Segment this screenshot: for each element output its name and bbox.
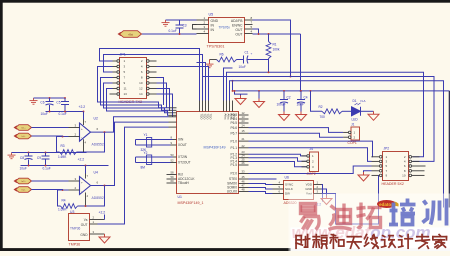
wire MSP to AD5320 b: [249, 188, 273, 190]
svg-text:SCLK: SCLK: [285, 187, 293, 191]
svg-text:21: 21: [242, 137, 246, 141]
svg-text:R4: R4: [62, 198, 66, 202]
svg-text:52: 52: [171, 159, 175, 163]
wire rail top: [34, 97, 66, 99]
header COP1: [351, 127, 360, 140]
wire riser U4 power: [85, 166, 87, 174]
wire OUT down to rail: [300, 34, 302, 91]
svg-text:+: +: [251, 52, 253, 56]
wire drop to ground left: [258, 91, 260, 99]
svg-text:MSP430F149_1: MSP430F149_1: [178, 201, 204, 205]
svg-text:+Bat: +Bat: [128, 34, 133, 37]
wire TMP36 OUT to MSP: [98, 127, 169, 224]
border left: [0, 0, 3, 253]
wire R2 to D1: [342, 110, 352, 112]
svg-text:TDO: TDO: [209, 114, 213, 121]
capacitor C2: [280, 91, 288, 112]
svg-text:P6.6: P6.6: [230, 126, 237, 130]
wire R1 top: [268, 34, 270, 42]
svg-text:26: 26: [242, 161, 246, 165]
wire bus JP1 to MSP430 c: [104, 83, 169, 113]
wire loop JP1 pin3 over top: [104, 55, 203, 101]
watermark char di: [329, 204, 352, 230]
wire MSP to COP2 c: [249, 162, 307, 167]
svg-text:15: 15: [242, 129, 246, 133]
crystal Y1: [136, 138, 173, 148]
svg-text:TBoutH: TBoutH: [178, 181, 190, 185]
watermark char tuo: [357, 203, 382, 228]
op-amp U4: [69, 174, 99, 199]
wire P2 right 8: [420, 170, 425, 172]
wire MSP to COP1 b: [249, 133, 344, 137]
svg-text:OUT: OUT: [81, 223, 88, 227]
svg-text:0.1uF: 0.1uF: [59, 112, 67, 116]
ground rail bottom-left: [8, 153, 16, 159]
svg-text:P1.0: P1.0: [230, 139, 237, 143]
svg-text:J4: J4: [310, 147, 314, 151]
wire JP1 right down a: [157, 78, 164, 106]
svg-text:VDD: VDD: [306, 183, 313, 187]
svg-text:1.69K: 1.69K: [58, 208, 67, 212]
svg-text:XOUT: XOUT: [178, 143, 187, 147]
wire MSP to P2 pin1: [249, 141, 373, 157]
svg-text:EN/NC: EN/NC: [232, 24, 243, 28]
wire rail +2.2 mid: [21, 165, 109, 167]
watermark char pei: [389, 199, 416, 225]
svg-text:C9: C9: [37, 156, 41, 160]
svg-text:XIN: XIN: [178, 138, 184, 142]
temperature sensor U3 TMP36: [69, 214, 90, 241]
wire rail +2.2 top: [46, 111, 84, 113]
watermark background: [289, 194, 450, 252]
ground arrow MSP top: [235, 96, 246, 105]
svg-text:C8: C8: [20, 156, 24, 160]
svg-text:60: 60: [171, 179, 175, 183]
svg-text:23: 23: [242, 119, 246, 123]
wire run U5 OUT to rail: [253, 29, 259, 34]
wire JP1 right down b: [157, 83, 167, 108]
ground arrow AD5320: [321, 196, 332, 205]
header JP1: [120, 58, 147, 99]
wire bus JP1 to MSP430 a: [98, 67, 169, 108]
capacitor C8: [25, 153, 33, 166]
wire connector to U4 inv: [32, 189, 63, 192]
svg-text:GND: GND: [211, 19, 219, 23]
svg-text:TPS76x: TPS76x: [219, 26, 231, 30]
wire JP1 right down d: [157, 94, 173, 117]
connector Inp1+: [14, 125, 32, 131]
svg-text:LED: LED: [352, 118, 359, 122]
svg-text:0.1uF: 0.1uF: [169, 29, 177, 33]
svg-text:10: 10: [402, 174, 406, 178]
svg-text:COP2: COP2: [307, 172, 316, 176]
svg-text:8M: 8M: [141, 166, 146, 170]
wire mini gnd rail: [235, 91, 248, 94]
svg-text:OUT: OUT: [235, 28, 242, 32]
wire connector to U5 pin4: [142, 33, 197, 35]
svg-text:R6: R6: [220, 53, 224, 57]
wire MSP top right bundle a: [224, 68, 233, 101]
connector +B: [118, 31, 142, 38]
svg-text:UCLK0: UCLK0: [227, 190, 238, 194]
svg-text:+: +: [81, 180, 83, 184]
wire TMP36 GND: [98, 233, 105, 235]
svg-text:R2: R2: [319, 105, 323, 109]
svg-text:C1: C1: [245, 51, 249, 55]
svg-text:100uF: 100uF: [277, 103, 286, 107]
wire JP1 pin4 to MSP top: [157, 67, 209, 101]
ground near U5: [162, 20, 170, 26]
svg-text:Rst: Rst: [178, 173, 183, 177]
wire P2 right 6: [420, 165, 426, 167]
wire bus JP1 to MSP430 b: [101, 78, 169, 111]
svg-text:U5: U5: [209, 13, 214, 17]
wire U5 GND to ground: [166, 19, 197, 21]
ground above MSP430: [206, 62, 214, 68]
capacitor C4: [297, 91, 305, 112]
wire U5 IN join: [193, 25, 197, 30]
wire MSP top left vertical: [197, 63, 206, 101]
svg-text:U6: U6: [285, 176, 289, 180]
ground arrow under C2: [279, 112, 290, 121]
svg-text:OUT: OUT: [235, 33, 242, 37]
svg-text:In1+: In1+: [21, 128, 26, 130]
svg-text:10uF: 10uF: [239, 65, 246, 69]
svg-text:IN: IN: [211, 28, 215, 32]
svg-text:1.69K: 1.69K: [58, 155, 67, 159]
svg-text:700: 700: [320, 115, 326, 119]
svg-text:HEADER 5X2: HEADER 5X2: [382, 182, 404, 186]
wire U2 feedback: [77, 132, 105, 152]
wire riser U2 power: [83, 112, 85, 120]
capacitor C3: [176, 20, 184, 34]
svg-text:GND: GND: [305, 187, 313, 191]
svg-text:0.1uF: 0.1uF: [43, 167, 51, 171]
resistor R4: [61, 204, 78, 209]
wire U2 vminus: [83, 145, 85, 153]
resistor R1: [266, 42, 271, 59]
wire D1 to ground: [361, 110, 374, 112]
connector Inp1-: [14, 133, 32, 139]
svg-text:XT2IN: XT2IN: [178, 155, 188, 159]
DAC U6 AD5320: [284, 181, 314, 200]
svg-text:R1: R1: [273, 43, 277, 47]
svg-text:D1: D1: [353, 99, 357, 103]
capacitor C6: [46, 98, 54, 112]
svg-text:In2-: In2-: [22, 190, 26, 192]
svg-text:TMP36: TMP36: [70, 227, 81, 231]
wire TMP36 Vs to +2.2: [104, 215, 106, 220]
wire U5 ADJ down: [253, 20, 291, 77]
svg-text:Vs: Vs: [84, 218, 88, 222]
svg-text:C5: C5: [56, 101, 60, 105]
svg-text:+2.2: +2.2: [78, 158, 85, 162]
svg-text:10uF: 10uF: [297, 103, 304, 107]
svg-text:13: 13: [124, 92, 128, 96]
wire MSP right g: [249, 178, 277, 180]
resistor R3: [60, 150, 77, 155]
ground arrow after LED: [368, 111, 379, 120]
microcontroller U1 MSP430F149: [177, 112, 239, 194]
wire rail to R2: [311, 91, 323, 111]
svg-text:U4: U4: [94, 171, 98, 175]
ground arrow TMP36: [99, 234, 110, 243]
svg-text:-: -: [81, 136, 82, 140]
wire loop JP1 pin1 over top: [100, 49, 200, 101]
wire AD5320 Vout: [322, 175, 379, 224]
svg-text:ADJ/FB: ADJ/FB: [231, 19, 243, 23]
svg-text:Y1: Y1: [144, 133, 148, 137]
svg-text:+2.2: +2.2: [79, 105, 86, 109]
wire rail y90: [232, 81, 234, 91]
svg-text:TPS76301: TPS76301: [207, 45, 225, 49]
svg-text:45: 45: [242, 175, 246, 179]
wire MSP to P2 pin5: [249, 166, 372, 174]
svg-text:10uF: 10uF: [41, 112, 48, 116]
svg-text:P6.7: P6.7: [230, 131, 237, 135]
voltage regulator U5 TPS76301: [209, 18, 245, 43]
svg-text:In1-: In1-: [22, 136, 26, 138]
crystal Y2: [136, 155, 173, 165]
svg-text:AD8552: AD8552: [92, 143, 104, 147]
wire MSP to COP2 b: [249, 158, 307, 162]
svg-text:N.A: N.A: [361, 99, 366, 103]
wire MSP to P2 pin3: [249, 148, 372, 162]
ground arrow P2: [358, 172, 369, 181]
svg-text:24: 24: [242, 124, 246, 128]
svg-text:100k: 100k: [273, 48, 280, 52]
svg-text:In2+: In2+: [21, 181, 26, 183]
wire R4 to inverting input: [58, 190, 69, 206]
wire run3 y80 down right: [230, 81, 444, 208]
wire AD5320 GND: [322, 189, 327, 196]
svg-text:XT2OUT: XT2OUT: [178, 161, 191, 165]
svg-text:12: 12: [139, 87, 143, 91]
wire U4 feedback: [78, 186, 105, 207]
svg-text:P1.5: P1.5: [230, 163, 237, 167]
border top: [0, 0, 450, 3]
wire R1 bottom: [268, 59, 270, 73]
wire bus JP1 to MSP430 d: [107, 89, 169, 116]
wire P2 right 10: [420, 174, 425, 176]
wire P2 pin7 ground: [364, 171, 372, 172]
watermark slogan: [296, 235, 310, 249]
header P2 5x2: [383, 152, 409, 181]
svg-text:+2.2: +2.2: [99, 211, 106, 215]
svg-text:10uF: 10uF: [20, 167, 27, 171]
svg-text:22: 22: [242, 144, 246, 148]
capacitor C5: [61, 98, 69, 112]
svg-text:14: 14: [139, 92, 143, 96]
svg-text:P2.0: P2.0: [230, 172, 237, 176]
wire MSP to AD5320 c: [249, 192, 273, 194]
svg-text:11: 11: [124, 87, 127, 91]
svg-text:U1: U1: [178, 195, 182, 199]
watermark char yi: [301, 204, 320, 230]
wire connector to U4 noninv: [32, 180, 69, 182]
wire MSP to COP2 a: [249, 154, 307, 156]
svg-text:STE0: STE0: [229, 177, 237, 181]
svg-text:C6: C6: [40, 101, 44, 105]
wire U4 vminus: [85, 198, 87, 206]
svg-text:U3: U3: [70, 210, 74, 214]
svg-text:MSP430F149: MSP430F149: [204, 146, 226, 150]
ground arrow left of C2: [254, 99, 265, 108]
connector Inp2+: [14, 178, 32, 184]
svg-text:C2: C2: [287, 96, 291, 100]
svg-text:C3: C3: [183, 24, 187, 28]
watermark logo: [377, 200, 399, 208]
svg-text:Y2: Y2: [144, 151, 148, 155]
header COP2: [310, 152, 319, 172]
svg-text:TMP36: TMP36: [69, 243, 81, 247]
svg-text:JP2: JP2: [384, 147, 390, 151]
svg-text:10: 10: [139, 81, 143, 85]
svg-text:-: -: [81, 189, 82, 193]
capacitor C1: [237, 52, 269, 64]
wire U2 output: [91, 117, 169, 132]
svg-text:SYNC: SYNC: [285, 183, 294, 187]
svg-text:58: 58: [171, 171, 175, 175]
resistor R6: [217, 57, 237, 62]
wire connector to U2 noninv: [32, 127, 69, 129]
svg-text:J1: J1: [351, 123, 355, 127]
wire run1 y72 to P2: [227, 72, 424, 157]
wire U4 output: [91, 122, 169, 185]
wire JP1 right down c: [157, 89, 170, 112]
wire rail bottom: [12, 152, 87, 154]
svg-text:IN: IN: [211, 24, 215, 28]
svg-text:P1.1: P1.1: [230, 146, 237, 150]
ground rail top-left: [30, 98, 38, 104]
diode D1 LED: [352, 103, 361, 116]
wire MSP to AD5320 a: [249, 184, 273, 185]
svg-text:33: 33: [242, 170, 246, 174]
wire AD5320 VDD: [322, 185, 323, 202]
svg-text:COP1: COP1: [348, 141, 357, 145]
wire MSP to COP1 a: [249, 128, 344, 133]
svg-text:R3: R3: [61, 144, 65, 148]
connector Inp2-: [14, 187, 32, 193]
svg-text:AD8552: AD8552: [92, 196, 104, 200]
svg-text:P6.5: P6.5: [230, 121, 237, 125]
wire U5 OUT pin4 east: [253, 33, 301, 35]
watermark char xun: [423, 199, 447, 226]
ground arrow under C4: [296, 112, 307, 121]
svg-text:C4: C4: [304, 96, 308, 100]
wire gnd to R6: [210, 59, 217, 61]
svg-text:U2: U2: [94, 117, 98, 121]
wire R3 to inverting input: [57, 137, 69, 153]
wire run2 y76 to P2: [203, 77, 435, 162]
wire connector to U2 inv: [32, 135, 63, 138]
svg-text:48: 48: [242, 188, 246, 192]
svg-text:+: +: [81, 127, 83, 131]
op-amp U2: [69, 120, 99, 145]
svg-text:GND: GND: [80, 233, 88, 237]
resistor R2: [322, 109, 342, 114]
svg-text:53: 53: [171, 153, 175, 157]
border bottom: [0, 248, 450, 252]
capacitor C9: [42, 153, 50, 166]
